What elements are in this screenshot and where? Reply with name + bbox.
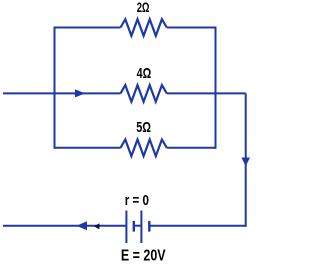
resistor R2 zigzag (4 ohm) <box>121 85 167 102</box>
current arrow into node (right-pointing) <box>75 89 85 97</box>
small current arrowhead on bottom wire (dark) <box>94 223 99 229</box>
wire: middle branch right lead to outer rail <box>167 92 246 94</box>
resistor R1 zigzag (2 ohm) <box>121 19 167 36</box>
svg-text:4Ω: 4Ω <box>137 65 152 82</box>
current arrow leftward on bottom wire <box>77 221 88 230</box>
wire: left rail vertical <box>54 27 56 149</box>
svg-text:E = 20V: E = 20V <box>121 247 166 265</box>
wire: battery inter-cell stub <box>134 225 142 227</box>
svg-text:2Ω: 2Ω <box>137 0 150 16</box>
wire: bottom branch right lead <box>167 147 216 149</box>
wire: bottom branch left lead <box>55 147 121 149</box>
battery cell 1 short plate <box>133 221 135 232</box>
wire: bottom line right of battery <box>149 225 245 227</box>
svg-text:r = 0: r = 0 <box>125 192 149 209</box>
wire: outer right vertical down to battery line <box>245 93 247 226</box>
current arrow downward on outer rail <box>241 158 250 167</box>
wire: top branch left lead <box>55 27 121 29</box>
wire: top branch right lead <box>167 27 216 29</box>
wire: middle branch left lead from input <box>3 92 121 94</box>
battery cell 1 long plate <box>125 211 127 244</box>
battery cell 2 short plate <box>148 221 150 232</box>
svg-text:5Ω: 5Ω <box>136 118 151 135</box>
wire: bottom line left of battery <box>3 225 126 227</box>
battery cell 2 long plate <box>140 211 142 244</box>
wire: right rail vertical <box>215 27 217 149</box>
resistor R3 zigzag (5 ohm) <box>121 140 167 157</box>
